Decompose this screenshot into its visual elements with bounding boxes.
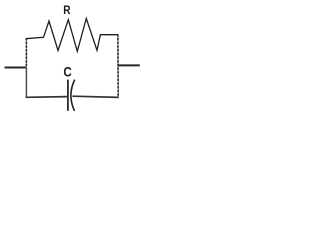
wire left vertical rail upper (beaded scan texture)	[25, 38, 27, 68]
svg-text:R: R	[63, 4, 70, 17]
wire bottom right segment	[72, 96, 118, 97]
svg-text:C: C	[63, 63, 72, 79]
wire bottom left segment	[26, 96, 68, 99]
wire right vertical rail (beaded scan texture)	[117, 34, 119, 97]
wire left external lead	[5, 67, 27, 69]
capacitor C1 curved plate	[71, 80, 75, 111]
wire left vertical rail lower	[25, 68, 27, 98]
capacitor C1 straight plate	[67, 80, 69, 111]
wire right external lead	[118, 64, 140, 66]
resistor R1 zigzag with top wires	[26, 19, 118, 52]
